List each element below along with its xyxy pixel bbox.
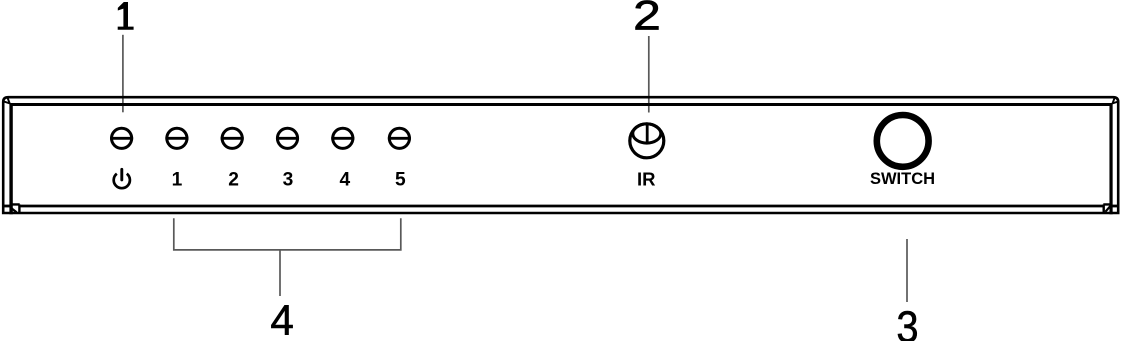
svg-text:4: 4 bbox=[270, 297, 293, 341]
svg-text:2: 2 bbox=[228, 169, 239, 190]
svg-text:SWITCH: SWITCH bbox=[870, 170, 935, 188]
svg-text:3: 3 bbox=[896, 302, 918, 341]
svg-text:IR: IR bbox=[637, 169, 656, 190]
svg-text:1: 1 bbox=[172, 169, 183, 190]
svg-text:4: 4 bbox=[339, 169, 350, 190]
svg-text:5: 5 bbox=[395, 169, 406, 190]
svg-text:3: 3 bbox=[283, 169, 294, 190]
svg-text:2: 2 bbox=[633, 0, 661, 39]
